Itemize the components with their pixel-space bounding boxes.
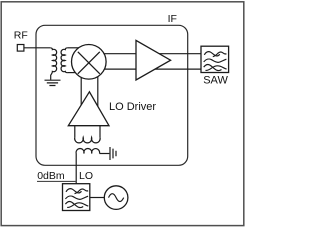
transformer T2 primary winding [75, 137, 101, 142]
IC boundary rounded box [36, 25, 188, 165]
wire mixer to IF amp / SAW (lower) [100, 68, 201, 70]
LO bandpass filter FL2 box [63, 184, 90, 211]
transformer T2 primary leads [75, 126, 100, 138]
svg-text:0dBm: 0dBm [37, 170, 65, 182]
wire mixer down to LO driver (right) [97, 70, 99, 108]
oscillator G1 [104, 186, 128, 210]
ground [45, 80, 61, 85]
side ground (rotated) [110, 147, 116, 160]
LO driver amplifier A2 [68, 92, 109, 126]
svg-text:LO: LO [79, 170, 93, 182]
balun T1 secondary winding [61, 48, 68, 73]
mixer U1 [72, 45, 107, 80]
FL2 filter waves [65, 189, 88, 208]
SAW filter FL1 box [201, 46, 229, 72]
svg-text:LO Driver: LO Driver [109, 101, 156, 113]
wire mixer down to LO driver (left) [80, 70, 82, 108]
transformer T2 secondary winding [76, 149, 100, 154]
wire RF port to balun primary [24, 47, 50, 49]
svg-text:RF: RF [14, 30, 28, 42]
wire T2 secondary to side ground [100, 153, 110, 155]
outer border frame [1, 2, 244, 226]
wire mixer to IF amp / SAW (upper) [100, 53, 201, 55]
balun T1 primary winding [50, 48, 56, 80]
wire balun secondary top to mixer [67, 47, 83, 49]
wire balun secondary bottom to mixer [68, 72, 80, 74]
RF port square [17, 45, 24, 52]
wire FL2 to oscillator [90, 197, 105, 199]
FL1 filter waves [204, 52, 227, 71]
IF amplifier A1 [136, 40, 171, 80]
svg-text:SAW: SAW [203, 75, 228, 87]
wire LO down from T2 secondary [75, 154, 77, 184]
leader line under 0dBm [37, 180, 76, 182]
svg-text:IF: IF [168, 13, 177, 25]
